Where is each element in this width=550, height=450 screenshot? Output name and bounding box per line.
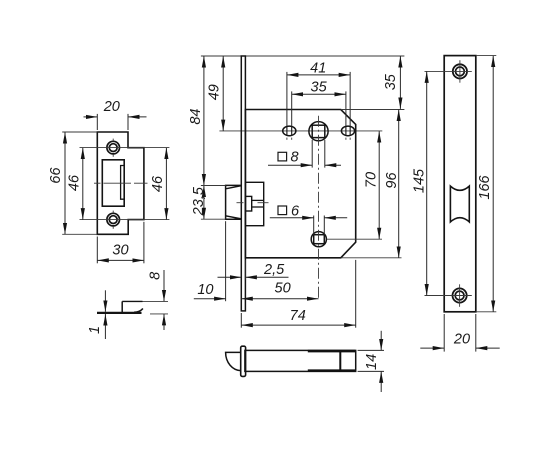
dimension 35 vertical <box>399 56 401 109</box>
bottom view latch wedge <box>226 352 241 370</box>
svg-text:35: 35 <box>311 80 328 96</box>
bottom view case end wall <box>339 350 341 371</box>
dimension 30 strike bottom <box>97 222 144 263</box>
dimension 41 <box>287 72 350 126</box>
svg-text:6: 6 <box>291 203 300 219</box>
svg-text:66: 66 <box>48 167 64 184</box>
latch tail case <box>245 182 263 225</box>
bottom view lock body <box>245 350 356 371</box>
latch center line <box>237 202 269 204</box>
strike plate lower flange center/extension line <box>80 219 170 221</box>
front faceplate latch window <box>450 186 469 222</box>
strike side view plate bar <box>97 312 142 314</box>
extension line hole6 center <box>327 238 382 240</box>
svg-text:46: 46 <box>150 175 166 192</box>
front faceplate outline <box>444 56 476 312</box>
svg-text:30: 30 <box>112 243 128 259</box>
svg-text:166: 166 <box>477 174 493 199</box>
dimension 20 faceplate <box>420 314 499 352</box>
svg-text:84: 84 <box>188 109 204 125</box>
strike plate latch hole <box>102 160 124 206</box>
strike plate outline <box>97 132 144 234</box>
extension line body bottom right <box>341 257 402 259</box>
extension lines latch head <box>201 186 226 220</box>
svg-text:70: 70 <box>363 172 379 188</box>
svg-text:41: 41 <box>310 60 326 76</box>
strike plate latch hole center line <box>94 182 148 184</box>
screw center lines and 145 extensions <box>425 71 472 295</box>
front faceplate bottom screw <box>453 288 467 302</box>
svg-text:23,5: 23,5 <box>191 186 207 216</box>
extension line strike top left <box>62 131 97 133</box>
strike plate screw center ticks <box>112 139 114 229</box>
extension of tab top for dim 8 <box>143 300 169 302</box>
bottom view faceplate end <box>241 346 246 376</box>
dimension 145 <box>426 71 428 295</box>
svg-text:46: 46 <box>67 174 83 191</box>
dimension 50 <box>241 298 318 300</box>
strike side view curled lip <box>134 309 143 313</box>
dimension 70 <box>378 131 380 239</box>
slot edge ticks below ovals <box>287 138 350 140</box>
lock body horizontal center line through holes <box>219 130 382 132</box>
dimension 74 <box>241 260 355 328</box>
dimension 46 right <box>150 148 166 220</box>
bottom fixing square hole 6 <box>311 232 326 247</box>
svg-text:145: 145 <box>412 168 428 193</box>
dimension square 8 <box>268 140 341 168</box>
dimension 8 side view <box>163 270 165 330</box>
svg-text:20: 20 <box>103 99 120 115</box>
dimension 46 left <box>67 148 83 220</box>
dimension 84 <box>203 56 205 186</box>
svg-text:96: 96 <box>384 172 400 189</box>
dimension 20 strike top <box>84 114 147 130</box>
dimension 10 <box>194 221 226 301</box>
dimension 166 <box>476 56 497 312</box>
strike plate top screw hole <box>107 141 120 154</box>
front faceplate top screw <box>453 64 467 78</box>
extension line body top right <box>341 109 405 111</box>
svg-text:35: 35 <box>383 73 399 90</box>
bottom view case thick edges <box>308 351 356 371</box>
dimension 35 horizontal <box>292 91 346 126</box>
dimension 96 <box>398 110 400 258</box>
latch guide block <box>245 196 251 211</box>
dimension 1 side view <box>104 290 106 339</box>
handle screw slot right <box>341 126 354 136</box>
dimension 14 <box>358 331 384 392</box>
svg-text:2,5: 2,5 <box>263 262 285 278</box>
svg-text:1: 1 <box>87 326 103 334</box>
svg-text:74: 74 <box>290 308 306 324</box>
svg-text:20: 20 <box>453 332 470 348</box>
lock faceplate side bar <box>241 56 245 311</box>
lock body outline <box>245 110 355 258</box>
svg-text:8: 8 <box>290 150 298 166</box>
dimension 49 <box>222 56 224 131</box>
spindle hole square 8 <box>309 122 328 141</box>
strike plate bottom screw hole <box>107 213 120 226</box>
strike plate upper flange center/extension line <box>80 147 170 149</box>
svg-text:10: 10 <box>197 282 213 298</box>
dimension 2,5 <box>218 260 289 280</box>
handle screw slot left <box>283 126 296 136</box>
strike plate latch tongue notch <box>121 166 125 200</box>
latch spring bar <box>252 200 264 207</box>
svg-text:8: 8 <box>147 272 163 280</box>
extension at plate underside for dim 8 <box>150 313 168 315</box>
extension line strike bottom left <box>62 233 97 235</box>
strike side view bent tab <box>121 301 123 312</box>
dimension 66 <box>48 132 65 234</box>
dimension 23,5 <box>203 186 205 220</box>
dimension square 6 <box>270 216 347 235</box>
spindle vertical center line <box>318 116 320 301</box>
svg-text:50: 50 <box>275 281 291 297</box>
svg-text:14: 14 <box>364 354 380 370</box>
svg-text:49: 49 <box>206 84 222 100</box>
lock faceplate top extension line <box>201 55 405 57</box>
latch head <box>226 185 242 219</box>
